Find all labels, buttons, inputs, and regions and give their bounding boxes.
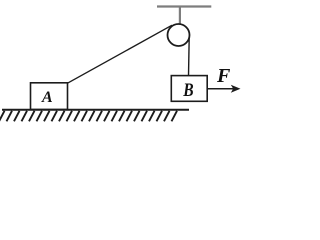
force arrowhead [231, 85, 241, 93]
svg-text:A: A [41, 89, 53, 106]
svg-text:B: B [182, 79, 193, 100]
force arrow line [208, 88, 234, 90]
block A [31, 83, 68, 110]
rope from block A to pulley [68, 25, 173, 83]
ceiling bar [157, 5, 211, 7]
svg-text:F: F [216, 65, 231, 87]
pulley support pole [179, 7, 181, 36]
rope from pulley to block B [188, 37, 191, 76]
pulley [168, 24, 190, 46]
ground hatching [0, 111, 177, 122]
block B [171, 76, 207, 102]
ground line [2, 109, 189, 111]
